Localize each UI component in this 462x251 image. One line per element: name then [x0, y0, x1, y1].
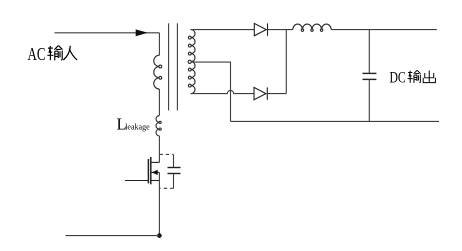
wire: secondary bottom terminal with hop over mid-tap vertical [191, 90, 255, 93]
label: Lleakage text [117, 114, 151, 133]
parasitic drain-source capacitor (dashed) [159, 154, 180, 188]
wire: MOSFET source down to bottom junction [158, 172, 160, 235]
svg-text:leakage: leakage [125, 122, 150, 131]
diode D1 [254, 23, 267, 35]
diode D2 [254, 87, 267, 99]
wire: inductor to top-right output [331, 29, 437, 31]
leakage inductance coil Lleakage [156, 116, 161, 136]
wire: between primary and leakage coil [158, 89, 160, 116]
source lead [151, 180, 160, 182]
wire: D1 cathode to inductor [268, 29, 293, 31]
label: AC input text [28, 45, 78, 64]
junction dot [157, 233, 162, 238]
svg-text:AC: AC [28, 45, 46, 64]
wire: AC input top line [55, 32, 160, 34]
gate bar [147, 159, 149, 183]
gate lead [125, 180, 148, 182]
arrowhead on AC input line [136, 29, 148, 36]
transformer core line 1 [168, 23, 170, 110]
wire: junction vertical joining D1/D2 cathodes [285, 30, 287, 94]
svg-text:DC: DC [390, 70, 406, 87]
body lead with arrow [152, 171, 160, 173]
wire: D2 cathode to junction vertical [267, 93, 286, 95]
MOSFET Q1 [125, 157, 159, 184]
wire: leakage coil to MOSFET drain [158, 136, 160, 163]
secondary winding of transformer [188, 30, 195, 94]
label: DC output text [390, 70, 436, 87]
channel bar [150, 157, 152, 184]
wire: secondary top terminal to diode D1 [191, 29, 255, 31]
wire: primary top vertical [158, 33, 160, 55]
drain lead [151, 161, 160, 163]
transformer core line 2 [176, 23, 178, 110]
wire: secondary mid tap horizontal [191, 61, 231, 63]
output capacitor C [363, 30, 377, 122]
output filter inductor [293, 24, 331, 31]
wire: bottom output rail [231, 120, 440, 122]
wire: AC return bottom line [66, 235, 160, 237]
wire: mid tap vertical down [230, 62, 232, 122]
primary winding of transformer [154, 55, 162, 89]
